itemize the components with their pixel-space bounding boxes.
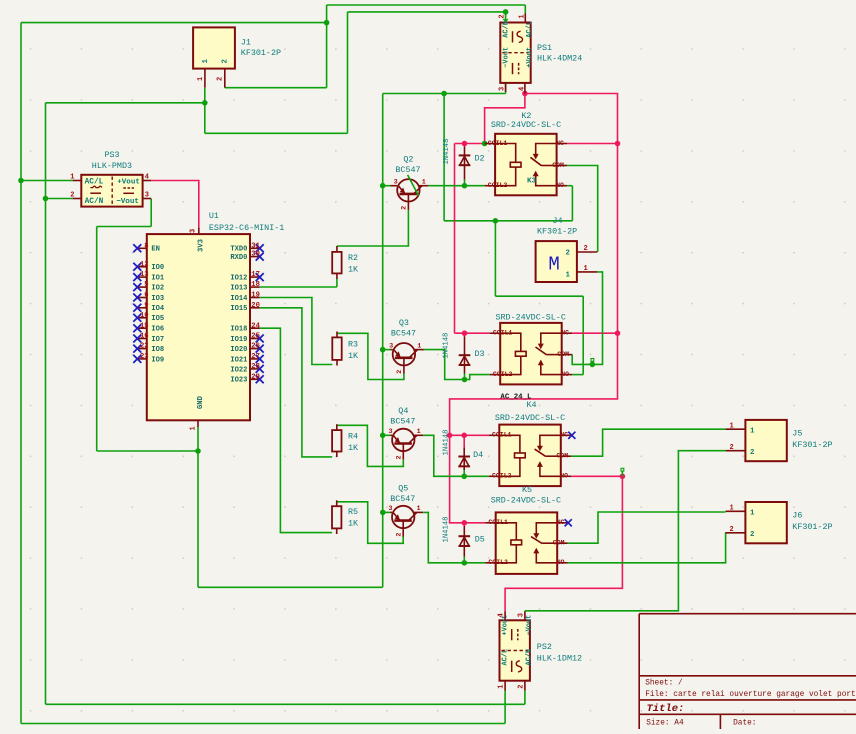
svg-text:NC: NC bbox=[560, 432, 568, 439]
svg-text:IO18: IO18 bbox=[230, 326, 247, 334]
svg-text:1: 1 bbox=[498, 684, 506, 688]
svg-text:D4: D4 bbox=[473, 450, 483, 460]
svg-text:−Vout: −Vout bbox=[502, 47, 510, 68]
svg-text:1: 1 bbox=[417, 342, 421, 350]
svg-text:K4: K4 bbox=[527, 400, 537, 410]
svg-text:1: 1 bbox=[518, 14, 526, 18]
svg-text:3: 3 bbox=[388, 505, 392, 513]
svg-text:SRD-24VDC-SL-C: SRD-24VDC-SL-C bbox=[496, 313, 566, 323]
svg-text:1: 1 bbox=[422, 179, 426, 187]
svg-text:2: 2 bbox=[499, 14, 507, 18]
svg-text:3V3: 3V3 bbox=[198, 239, 206, 252]
svg-text:COIL1: COIL1 bbox=[488, 140, 508, 147]
svg-text:3: 3 bbox=[518, 613, 526, 617]
svg-text:28: 28 bbox=[251, 363, 260, 371]
svg-text:PS2: PS2 bbox=[537, 642, 552, 652]
svg-text:2: 2 bbox=[584, 245, 588, 253]
svg-text:1N4148: 1N4148 bbox=[443, 517, 451, 543]
svg-text:13: 13 bbox=[140, 271, 149, 279]
svg-text:Title:: Title: bbox=[647, 703, 685, 715]
svg-text:+Vout: +Vout bbox=[117, 178, 140, 186]
svg-text:PS3: PS3 bbox=[105, 150, 120, 160]
svg-text:IO7: IO7 bbox=[151, 336, 164, 344]
svg-text:COM: COM bbox=[557, 351, 569, 358]
svg-text:Q4: Q4 bbox=[398, 406, 408, 416]
svg-text:2: 2 bbox=[730, 526, 734, 534]
svg-text:COIL1: COIL1 bbox=[493, 330, 513, 337]
svg-text:COIL1: COIL1 bbox=[488, 519, 508, 526]
svg-text:AC/L: AC/L bbox=[526, 21, 534, 38]
svg-text:1: 1 bbox=[584, 265, 588, 273]
svg-text:3: 3 bbox=[389, 342, 393, 350]
svg-text:3: 3 bbox=[190, 229, 198, 233]
svg-text:D5: D5 bbox=[475, 535, 485, 545]
svg-text:BC547: BC547 bbox=[390, 494, 415, 504]
svg-text:4: 4 bbox=[498, 613, 506, 617]
svg-text:SRD-24VDC-SL-C: SRD-24VDC-SL-C bbox=[495, 413, 565, 423]
svg-text:22: 22 bbox=[140, 343, 149, 351]
svg-text:8: 8 bbox=[144, 242, 148, 250]
svg-text:IO0: IO0 bbox=[151, 264, 164, 272]
svg-text:COM: COM bbox=[553, 540, 565, 547]
svg-text:2: 2 bbox=[222, 59, 230, 63]
svg-text:2: 2 bbox=[566, 250, 570, 258]
svg-text:K3: K3 bbox=[527, 177, 537, 185]
svg-text:2: 2 bbox=[750, 531, 754, 539]
svg-text:1K: 1K bbox=[348, 443, 359, 453]
svg-text:1K: 1K bbox=[348, 351, 359, 361]
svg-text:COIL2: COIL2 bbox=[488, 182, 508, 189]
svg-text:3: 3 bbox=[145, 192, 149, 200]
svg-text:3: 3 bbox=[499, 87, 507, 91]
svg-text:2: 2 bbox=[217, 77, 225, 81]
svg-text:6: 6 bbox=[144, 292, 148, 300]
svg-text:1K: 1K bbox=[348, 519, 359, 529]
svg-text:IO23: IO23 bbox=[230, 377, 247, 385]
svg-text:20: 20 bbox=[251, 302, 260, 310]
svg-text:24: 24 bbox=[251, 322, 260, 330]
svg-text:4: 4 bbox=[518, 87, 526, 91]
svg-text:1: 1 bbox=[70, 174, 74, 182]
svg-text:IO6: IO6 bbox=[151, 326, 164, 334]
svg-text:COIL2: COIL2 bbox=[492, 473, 512, 480]
svg-text:31: 31 bbox=[251, 242, 260, 250]
svg-text:−Vout: −Vout bbox=[116, 198, 139, 206]
svg-text:TXD0: TXD0 bbox=[230, 246, 247, 254]
svg-text:10: 10 bbox=[140, 312, 149, 320]
svg-text:27: 27 bbox=[251, 353, 260, 361]
svg-text:IO5: IO5 bbox=[151, 315, 164, 323]
svg-text:29: 29 bbox=[251, 373, 260, 381]
svg-text:J5: J5 bbox=[792, 429, 802, 439]
svg-text:NO: NO bbox=[557, 559, 565, 566]
svg-text:RXD0: RXD0 bbox=[230, 254, 247, 262]
svg-text:1: 1 bbox=[417, 428, 421, 436]
svg-text:IO8: IO8 bbox=[151, 346, 164, 354]
svg-text:PS1: PS1 bbox=[537, 43, 552, 53]
svg-text:15: 15 bbox=[140, 322, 149, 330]
svg-text:IO4: IO4 bbox=[151, 305, 165, 313]
svg-text:1: 1 bbox=[566, 271, 571, 279]
svg-text:IO2: IO2 bbox=[151, 285, 164, 293]
svg-text:EN: EN bbox=[151, 246, 160, 254]
svg-text:5: 5 bbox=[144, 281, 148, 289]
svg-text:AC/N: AC/N bbox=[502, 21, 510, 38]
svg-text:File: carte relai ouverture ga: File: carte relai ouverture garage volet… bbox=[645, 691, 856, 699]
svg-text:17: 17 bbox=[251, 271, 260, 279]
svg-text:R2: R2 bbox=[348, 253, 358, 263]
svg-text:3: 3 bbox=[389, 428, 393, 436]
svg-text:1: 1 bbox=[417, 505, 421, 513]
svg-text:IO15: IO15 bbox=[230, 305, 247, 313]
svg-text:Q5: Q5 bbox=[398, 484, 408, 494]
svg-text:BC547: BC547 bbox=[390, 416, 415, 426]
svg-text:NO: NO bbox=[561, 371, 569, 378]
svg-text:1: 1 bbox=[202, 59, 210, 64]
svg-text:4: 4 bbox=[145, 174, 149, 182]
svg-text:1: 1 bbox=[750, 510, 755, 518]
svg-text:Size: A4: Size: A4 bbox=[646, 720, 684, 728]
svg-text:NO: NO bbox=[560, 473, 568, 480]
svg-text:GND: GND bbox=[197, 395, 205, 409]
svg-text:2: 2 bbox=[750, 449, 754, 457]
svg-text:2: 2 bbox=[396, 455, 404, 459]
svg-text:D2: D2 bbox=[475, 154, 485, 164]
svg-text:1N4148: 1N4148 bbox=[443, 139, 451, 165]
svg-text:NO: NO bbox=[556, 182, 564, 189]
svg-text:KF301-2P: KF301-2P bbox=[792, 440, 832, 450]
svg-text:12: 12 bbox=[140, 261, 149, 269]
svg-text:COIL2: COIL2 bbox=[493, 371, 513, 378]
svg-text:HLK-PMD3: HLK-PMD3 bbox=[92, 161, 132, 171]
svg-text:19: 19 bbox=[251, 292, 260, 300]
svg-text:K5: K5 bbox=[522, 485, 532, 495]
svg-text:IO19: IO19 bbox=[230, 336, 247, 344]
svg-text:IO13: IO13 bbox=[230, 285, 247, 293]
svg-text:IO1: IO1 bbox=[151, 275, 164, 283]
svg-text:M: M bbox=[548, 254, 559, 276]
svg-text:Q3: Q3 bbox=[399, 318, 409, 328]
svg-text:HLK-4DM24: HLK-4DM24 bbox=[537, 54, 582, 64]
svg-text:SRD-24VDC-SL-C: SRD-24VDC-SL-C bbox=[491, 496, 561, 506]
svg-text:IO14: IO14 bbox=[230, 295, 248, 303]
svg-text:COIL1: COIL1 bbox=[492, 432, 512, 439]
svg-text:AC/N: AC/N bbox=[525, 649, 533, 666]
svg-text:R5: R5 bbox=[348, 507, 358, 517]
svg-text:2: 2 bbox=[396, 370, 404, 374]
svg-text:30: 30 bbox=[251, 251, 260, 259]
svg-text:1N4148: 1N4148 bbox=[443, 430, 451, 456]
svg-text:J4: J4 bbox=[553, 216, 563, 226]
svg-text:ESP32-C6-MINI-1: ESP32-C6-MINI-1 bbox=[209, 223, 284, 233]
svg-text:1K: 1K bbox=[348, 265, 359, 275]
svg-text:NC: NC bbox=[556, 140, 564, 147]
svg-text:KF301-2P: KF301-2P bbox=[792, 522, 832, 532]
svg-text:R4: R4 bbox=[348, 432, 358, 442]
svg-text:2: 2 bbox=[730, 444, 734, 452]
svg-text:9: 9 bbox=[144, 302, 148, 310]
svg-text:KF301-2P: KF301-2P bbox=[537, 226, 577, 236]
svg-text:1: 1 bbox=[750, 428, 755, 436]
svg-text:2: 2 bbox=[401, 206, 409, 210]
svg-text:2: 2 bbox=[518, 684, 526, 688]
svg-text:D3: D3 bbox=[475, 349, 485, 359]
svg-text:HLK-1DM12: HLK-1DM12 bbox=[537, 654, 582, 664]
svg-text:+Vout: +Vout bbox=[526, 47, 534, 68]
svg-text:KF301-2P: KF301-2P bbox=[241, 48, 281, 58]
svg-text:R3: R3 bbox=[348, 340, 358, 350]
svg-text:COM: COM bbox=[556, 453, 568, 460]
svg-text:Q2: Q2 bbox=[403, 155, 413, 165]
svg-text:3: 3 bbox=[394, 179, 398, 187]
svg-text:IO20: IO20 bbox=[230, 346, 247, 354]
svg-text:16: 16 bbox=[140, 333, 149, 341]
svg-text:AC/L: AC/L bbox=[85, 178, 104, 186]
svg-text:J1: J1 bbox=[241, 38, 251, 48]
svg-text:1N4148: 1N4148 bbox=[443, 333, 451, 359]
svg-text:Date:: Date: bbox=[733, 720, 756, 728]
svg-text:NC: NC bbox=[557, 519, 565, 526]
svg-text:1: 1 bbox=[730, 423, 734, 431]
svg-text:18: 18 bbox=[251, 281, 260, 289]
svg-text:Sheet: /: Sheet: / bbox=[645, 680, 683, 688]
svg-text:BC547: BC547 bbox=[395, 165, 420, 175]
svg-text:23: 23 bbox=[140, 353, 149, 361]
svg-text:AC/L: AC/L bbox=[502, 649, 510, 666]
svg-text:NC: NC bbox=[561, 330, 569, 337]
svg-text:1: 1 bbox=[197, 77, 205, 81]
svg-text:IO12: IO12 bbox=[230, 275, 247, 283]
svg-text:J6: J6 bbox=[792, 511, 802, 521]
svg-text:26: 26 bbox=[251, 343, 260, 351]
svg-text:BC547: BC547 bbox=[391, 329, 416, 339]
svg-text:25: 25 bbox=[251, 333, 260, 341]
svg-text:2: 2 bbox=[395, 533, 403, 537]
svg-text:COIL2: COIL2 bbox=[488, 559, 508, 566]
svg-text:COM: COM bbox=[552, 162, 564, 169]
svg-text:AC_24_L: AC_24_L bbox=[500, 393, 532, 401]
svg-text:IO3: IO3 bbox=[151, 295, 164, 303]
svg-text:1: 1 bbox=[190, 426, 198, 430]
svg-text:SRD-24VDC-SL-C: SRD-24VDC-SL-C bbox=[491, 120, 561, 130]
svg-text:1: 1 bbox=[730, 505, 734, 513]
svg-text:U1: U1 bbox=[209, 211, 219, 221]
svg-text:−Vout: −Vout bbox=[525, 615, 533, 636]
svg-text:IO22: IO22 bbox=[230, 366, 247, 374]
svg-text:AC/N: AC/N bbox=[85, 198, 104, 206]
svg-text:2: 2 bbox=[70, 192, 74, 200]
svg-text:IO21: IO21 bbox=[230, 356, 247, 364]
svg-text:IO9: IO9 bbox=[151, 356, 164, 364]
